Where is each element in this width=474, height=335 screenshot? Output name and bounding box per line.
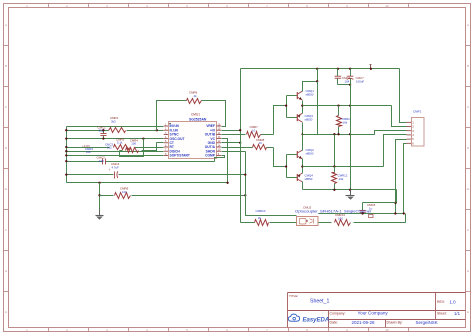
node dot CMR9 row xyxy=(98,194,100,196)
node dot B at row R8 xyxy=(244,173,246,175)
optocoupler U2 CMU2 xyxy=(297,217,319,226)
node dot mid rail x350 xyxy=(349,133,351,135)
capacitor CMC5 with wires xyxy=(362,203,364,211)
svg-text:s8550: s8550 xyxy=(305,177,313,181)
svg-text:s8050: s8050 xyxy=(306,152,314,156)
node dot rail x317 xyxy=(316,68,318,70)
capacitor CMC6 with wires xyxy=(337,69,339,77)
node dot Q1 collector junction xyxy=(316,80,318,82)
node dot pin5 vert join xyxy=(394,212,396,214)
node dot lower emitters xyxy=(301,165,303,167)
wire opto collector row xyxy=(319,213,404,215)
wire vertical B SHDN net xyxy=(246,152,297,216)
svg-text:1.0: 1.0 xyxy=(450,299,457,304)
resistor CMR1 xyxy=(109,128,126,133)
node dot bus R2 xyxy=(65,129,67,131)
svg-text:5.1k: 5.1k xyxy=(117,141,123,145)
resistor CMR5 xyxy=(114,145,130,150)
node dot upper bases xyxy=(285,104,287,106)
resistor CMR10 xyxy=(255,220,269,226)
resistor CMR9 xyxy=(115,193,131,199)
node dot +VI at A xyxy=(239,129,241,131)
connector CMP1 header xyxy=(412,118,425,147)
svg-text:Date:: Date: xyxy=(330,321,338,325)
node dot CMR9 row at B xyxy=(244,194,246,196)
svg-text:4.7uF: 4.7uF xyxy=(112,165,120,169)
wire row pin2 N.I.IN xyxy=(67,130,109,132)
svg-text:332: 332 xyxy=(99,129,104,133)
node dot pin6 vert join xyxy=(403,212,405,214)
node dot CMR11 bottom xyxy=(337,133,339,135)
wire x351 mid to ground rail xyxy=(350,106,352,190)
wire vertical A supply xyxy=(240,69,242,223)
svg-text:104: 104 xyxy=(345,80,350,84)
svg-text:103: 103 xyxy=(99,159,104,163)
node dot bus R8 xyxy=(65,173,67,175)
EasyEDA logo xyxy=(288,314,329,323)
wire CMP1 pin6 vertical xyxy=(404,144,407,214)
capacitor CMC7 polarized with wires xyxy=(350,69,352,77)
svg-text:CMP1: CMP1 xyxy=(413,110,422,114)
node dot ground rail x351 xyxy=(349,189,351,191)
node dot bus R5 xyxy=(65,150,67,152)
svg-text:102: 102 xyxy=(107,145,112,149)
svg-text:A: A xyxy=(5,23,7,27)
wire upper bases vertical xyxy=(286,96,288,118)
svg-text:2021-09-28: 2021-09-28 xyxy=(352,320,376,325)
svg-text:10k: 10k xyxy=(86,150,91,154)
wire pair link vertical x334 xyxy=(334,135,336,167)
svg-text:100: 100 xyxy=(338,217,343,221)
wire row pin4 OSC.OUT xyxy=(67,138,164,140)
resistor CMR7 xyxy=(247,132,261,138)
svg-text:s8550: s8550 xyxy=(305,117,313,121)
wire OUT/A drive to lower bases xyxy=(222,147,253,149)
svg-text:A: A xyxy=(467,23,469,27)
svg-text:Sheet_1: Sheet_1 xyxy=(310,299,329,305)
net flag supply tick xyxy=(370,65,372,69)
node dot bus R3 xyxy=(65,137,67,139)
svg-text:B: B xyxy=(467,64,469,68)
node dot lower bases xyxy=(285,165,287,167)
wire mid rail 134 to CMP1 pin3 xyxy=(303,134,375,136)
wire CMR6 feedback loop xyxy=(157,101,187,131)
wire CMP1 pin5 vertical xyxy=(396,140,407,214)
svg-text:100uF: 100uF xyxy=(356,80,364,84)
svg-text:SOFT/START: SOFT/START xyxy=(170,154,190,158)
node dot upper emitters xyxy=(301,104,303,106)
resistor CMR6 xyxy=(187,99,202,104)
wire rail to CMP1 pin1 xyxy=(400,69,407,123)
svg-text:Sheet:: Sheet: xyxy=(437,312,447,316)
wire OUT/B drive to upper bases xyxy=(222,134,246,136)
node dot row3 x143 xyxy=(142,137,144,139)
svg-text:F: F xyxy=(467,228,469,232)
node dot bus R7 xyxy=(65,160,67,162)
wire lower bases vertical xyxy=(286,155,288,178)
node dot CMC6 link xyxy=(349,84,351,86)
node dot bus R4 xyxy=(65,146,67,148)
node dot CMC5 bottom xyxy=(361,212,363,214)
wire CMC5 top node xyxy=(363,202,396,204)
node dot output at x351 xyxy=(349,104,351,106)
node dot rail x351 xyxy=(349,68,351,70)
svg-text:CMU1: CMU1 xyxy=(191,112,200,116)
svg-text:10: 10 xyxy=(259,141,263,145)
svg-text:Company:: Company: xyxy=(330,311,346,315)
svg-text:10k: 10k xyxy=(122,190,127,194)
resistor CMR11 vertical with wires xyxy=(338,106,340,116)
capacitor CMC2 xyxy=(102,159,104,165)
svg-text:3k3: 3k3 xyxy=(111,119,116,123)
wire row pin6 RT with CMR5 xyxy=(67,147,110,149)
wire upper output node to CMP1 pin2 xyxy=(303,105,392,107)
svg-text:10k: 10k xyxy=(343,120,348,124)
svg-text:1/1: 1/1 xyxy=(454,311,461,316)
node dot rail net flag xyxy=(370,68,372,70)
node dot bus R6 xyxy=(65,154,67,156)
wire row pin7 DISCH xyxy=(67,151,164,153)
svg-text:REV:: REV: xyxy=(437,300,445,304)
svg-text:SergeiNSK: SergeiNSK xyxy=(416,320,438,325)
wire CMR9 row xyxy=(100,195,114,197)
resistor CMR13 xyxy=(335,220,351,226)
node dot ground stem top xyxy=(98,182,100,184)
node dot rail x336 xyxy=(337,68,339,70)
title block xyxy=(288,293,466,328)
wire CMC6 bottom link xyxy=(338,84,351,86)
node dot GND at A xyxy=(239,142,241,144)
svg-text:F: F xyxy=(5,228,7,232)
svg-text:Drawn By:: Drawn By: xyxy=(387,321,403,325)
transistor Q4 CMQ4 xyxy=(296,174,298,181)
svg-text:SG2525AN: SG2525AN xyxy=(189,117,207,121)
svg-text:TITLE:: TITLE: xyxy=(289,294,298,298)
resistor CMR8 xyxy=(253,145,267,150)
svg-text:H: H xyxy=(467,310,469,314)
node dot ground rail CMR12 xyxy=(333,189,335,191)
svg-text:E: E xyxy=(467,187,469,191)
svg-text:s8050: s8050 xyxy=(306,93,314,97)
wire CMR10 row from supply vertical xyxy=(241,222,255,224)
transistor Q1 CMQ1 xyxy=(296,92,298,99)
wire row R9 bottom xyxy=(67,182,228,184)
capacitor CMC1 xyxy=(103,131,105,134)
wire row R7 COMP return with CMC2 xyxy=(67,161,103,163)
wire CT loop: vertical x143 down, loop bottom, CMR4 row, CT stub xyxy=(120,139,144,157)
wire row R8 with CMC4 xyxy=(67,174,114,176)
transistor Q2 CMQ2 xyxy=(296,151,298,158)
svg-text:H: H xyxy=(5,310,7,314)
svg-text:EasyEDA: EasyEDA xyxy=(303,318,330,324)
transistor Q3 CMQ3 xyxy=(296,114,298,121)
node dot mid rail x334 xyxy=(333,133,335,135)
wire left vertical bus xyxy=(66,127,68,183)
wire row pin8 SOFT/START xyxy=(67,155,164,157)
svg-text:B: B xyxy=(5,64,7,68)
svg-text:13k: 13k xyxy=(339,177,344,181)
ground symbol right xyxy=(350,190,352,191)
ground symbol left xyxy=(99,210,101,216)
svg-text:10: 10 xyxy=(385,328,389,332)
wire row to pin1 INV.IN xyxy=(67,126,164,128)
wire +VI row xyxy=(222,130,241,132)
svg-text:CMR10: CMR10 xyxy=(256,209,266,213)
wire top rail xyxy=(241,68,400,70)
wire lower output node to CMP1 pin4 xyxy=(303,166,384,168)
svg-text:100: 100 xyxy=(131,142,136,146)
wire ground stem left xyxy=(99,183,101,211)
svg-text:E: E xyxy=(5,187,7,191)
op-amp U1 body: PWM controller CMU1 SG2525AN xyxy=(169,122,217,159)
svg-text:Your Company: Your Company xyxy=(358,311,389,316)
node dot lower node CMR12 top xyxy=(333,165,335,167)
svg-text:10: 10 xyxy=(252,128,256,132)
svg-text:Optocoupler_SFH617A-1_SingleCh: Optocoupler_SFH617A-1_SingleChannel xyxy=(295,210,371,214)
svg-text:10: 10 xyxy=(385,4,389,8)
resistor CMR12 vertical with wires xyxy=(334,167,336,173)
wire Q1 collector chain down to mid rail xyxy=(317,82,319,135)
wire ground rail lower xyxy=(303,189,397,191)
node dot CMR6 loop junction xyxy=(156,129,158,131)
node dot pin5 vert at CMC5 wire xyxy=(394,202,396,204)
wire VC pin down to row R9 xyxy=(222,139,228,183)
capacitor CMC4 polarized xyxy=(114,172,116,179)
wire CMR13 row xyxy=(319,222,332,224)
node dot output at x336 xyxy=(337,104,339,106)
wire GND pin to vertical A xyxy=(222,142,241,144)
node dot mid rail left xyxy=(301,133,303,135)
node dot VC join R9 xyxy=(226,182,228,184)
wire SHDN right to vertical B xyxy=(222,151,246,153)
svg-text:+: + xyxy=(109,168,111,172)
resistor CMR4 xyxy=(126,148,139,153)
